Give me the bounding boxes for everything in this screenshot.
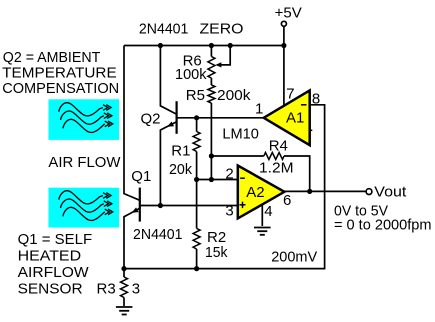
svg-text:1.2M: 1.2M [259, 160, 294, 177]
svg-text:3: 3 [132, 280, 140, 297]
svg-text:A1: A1 [286, 109, 304, 126]
svg-text:4: 4 [264, 203, 272, 220]
svg-text:20k: 20k [169, 161, 192, 178]
svg-text:AIRFLOW: AIRFLOW [18, 264, 90, 281]
svg-text:Q1 = SELF: Q1 = SELF [18, 231, 93, 248]
svg-text:LM10: LM10 [222, 126, 259, 143]
svg-text:AIR FLOW: AIR FLOW [48, 154, 121, 171]
svg-text:COMPENSATION: COMPENSATION [2, 80, 119, 97]
svg-text:+5V: +5V [275, 5, 302, 22]
svg-text:A2: A2 [246, 184, 264, 201]
svg-text:1: 1 [255, 101, 263, 118]
svg-text:200k: 200k [217, 87, 251, 104]
svg-text:100k: 100k [175, 66, 207, 83]
svg-text:200mV: 200mV [271, 249, 317, 266]
svg-text:R5: R5 [186, 87, 205, 104]
svg-text:Q2: Q2 [141, 110, 161, 127]
svg-text:HEATED: HEATED [18, 248, 82, 265]
svg-text:Q2 = AMBIENT: Q2 = AMBIENT [3, 49, 101, 66]
svg-text:TEMPERATURE: TEMPERATURE [2, 65, 117, 82]
svg-text:7: 7 [286, 86, 294, 103]
svg-text:2N4401: 2N4401 [133, 226, 183, 243]
svg-text:Q1: Q1 [131, 168, 151, 185]
svg-text:8: 8 [312, 91, 320, 108]
svg-text:R4: R4 [269, 138, 288, 155]
svg-text:2: 2 [225, 165, 233, 182]
svg-text:2N4401: 2N4401 [139, 21, 189, 38]
svg-text:15k: 15k [205, 244, 228, 261]
svg-text:SENSOR: SENSOR [18, 280, 83, 297]
svg-text:6: 6 [283, 192, 291, 209]
svg-text:= 0 to 2000fpm: = 0 to 2000fpm [334, 216, 432, 233]
svg-text:R3: R3 [97, 280, 116, 297]
svg-text:R1: R1 [171, 143, 190, 160]
svg-text:Vout: Vout [374, 184, 407, 201]
svg-text:ZERO: ZERO [200, 21, 244, 38]
svg-text:3: 3 [225, 203, 233, 220]
